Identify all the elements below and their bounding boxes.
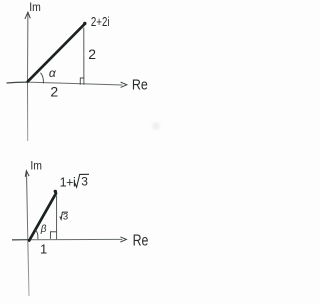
svg-text:Re: Re (133, 232, 149, 249)
svg-text:1+i: 1+i (60, 175, 76, 189)
svg-text:β: β (40, 224, 47, 235)
svg-text:3: 3 (63, 211, 68, 222)
svg-text:α: α (49, 66, 57, 80)
svg-text:1: 1 (40, 241, 47, 256)
svg-text:Im: Im (30, 159, 42, 173)
svg-text:2: 2 (88, 46, 96, 62)
svg-text:2+2i: 2+2i (91, 14, 110, 29)
svg-text:3: 3 (81, 175, 88, 189)
svg-text:Re: Re (132, 76, 148, 93)
svg-text:2: 2 (50, 83, 58, 99)
svg-text:Im: Im (29, 0, 41, 14)
